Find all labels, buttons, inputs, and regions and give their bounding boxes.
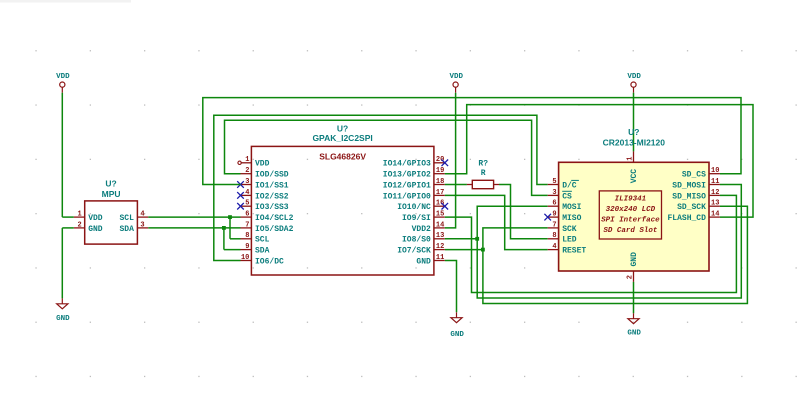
svg-text:GND: GND bbox=[416, 257, 431, 266]
U3 pin 10 SD_CS bbox=[682, 167, 720, 180]
junction MOSI net bbox=[475, 237, 479, 241]
U3 pin 14 FLASH_CD bbox=[667, 211, 719, 224]
svg-text:CR2013-MI2120: CR2013-MI2120 bbox=[603, 137, 666, 147]
svg-text:IO3/SS3: IO3/SS3 bbox=[255, 203, 289, 212]
MPU pin 3 SDA bbox=[119, 221, 148, 234]
svg-text:FLASH_CD: FLASH_CD bbox=[667, 214, 706, 223]
svg-text:4: 4 bbox=[140, 211, 144, 219]
svg-text:2: 2 bbox=[77, 221, 81, 229]
svg-text:11: 11 bbox=[436, 254, 444, 262]
U3 pin 6 MOSI bbox=[548, 200, 582, 213]
svg-text:MISO: MISO bbox=[562, 214, 581, 223]
U3 pin 1 VCC (top) bbox=[627, 151, 639, 183]
svg-text:12: 12 bbox=[436, 243, 444, 251]
U2 pin 11 GND bbox=[416, 254, 444, 267]
svg-text:13: 13 bbox=[711, 200, 719, 208]
svg-text:U?: U? bbox=[628, 127, 639, 137]
svg-text:SDA: SDA bbox=[255, 247, 270, 256]
U2 pin 17 IO11/GPIO0 bbox=[383, 189, 445, 202]
svg-text:1: 1 bbox=[77, 211, 81, 219]
svg-text:SPI Interface: SPI Interface bbox=[601, 216, 660, 224]
wire net SSD/CS: U2 pin2 over the top to U3 CS bbox=[225, 120, 548, 195]
svg-text:VCC: VCC bbox=[630, 169, 639, 184]
svg-text:VDD: VDD bbox=[56, 73, 70, 81]
svg-text:D/C: D/C bbox=[562, 181, 577, 190]
U2 pin 13 IO8/S0 bbox=[402, 232, 445, 245]
svg-text:2: 2 bbox=[627, 275, 635, 279]
svg-text:R: R bbox=[481, 169, 486, 178]
junction SCK net bbox=[481, 248, 485, 252]
svg-text:7: 7 bbox=[245, 221, 249, 229]
svg-text:MPU: MPU bbox=[102, 189, 121, 199]
wire MPU pin 2 to GND bbox=[62, 228, 74, 299]
svg-text:GPAK_I2C2SPI: GPAK_I2C2SPI bbox=[312, 133, 372, 143]
svg-text:8: 8 bbox=[552, 232, 556, 240]
svg-text:SLG46826V: SLG46826V bbox=[319, 152, 366, 162]
svg-text:MOSI: MOSI bbox=[562, 203, 581, 212]
svg-text:VDD: VDD bbox=[88, 214, 103, 223]
faint screenshot artifact top-left bbox=[0, 0, 131, 3]
U2 pin 18 IO12/GPIO1 bbox=[383, 178, 445, 191]
svg-text:6: 6 bbox=[245, 211, 249, 219]
svg-text:1: 1 bbox=[627, 156, 635, 160]
wire net SS1/SD_CS: U2 pin3 over the top to U3 SD_CS bbox=[203, 98, 741, 185]
svg-text:IO11/GPIO0: IO11/GPIO0 bbox=[383, 192, 431, 201]
svg-text:GND: GND bbox=[88, 225, 103, 234]
svg-text:9: 9 bbox=[552, 211, 556, 219]
svg-text:SD_MOSI: SD_MOSI bbox=[672, 181, 706, 190]
svg-text:RESET: RESET bbox=[562, 247, 586, 256]
svg-text:2: 2 bbox=[245, 167, 249, 175]
no-connect X on U3 MISO bbox=[544, 214, 551, 221]
svg-text:SCL: SCL bbox=[119, 214, 134, 223]
U3 pin 4 RESET bbox=[548, 243, 587, 256]
svg-text:IO4/SCL2: IO4/SCL2 bbox=[255, 214, 294, 223]
U2 pin 14 VDD2 bbox=[412, 221, 445, 234]
svg-text:LED: LED bbox=[562, 236, 577, 245]
IC U3 CR2013-MI2120 body bbox=[559, 127, 709, 271]
svg-text:SD_MISO: SD_MISO bbox=[672, 192, 706, 201]
svg-text:320x240 LCD: 320x240 LCD bbox=[606, 206, 656, 214]
svg-text:GND: GND bbox=[56, 315, 70, 323]
svg-text:SCL: SCL bbox=[255, 236, 270, 245]
wire U2 pin18 IO12/GPIO1 to R1 bbox=[445, 184, 467, 186]
wire net DC: U2 pin10 IO6/DC over the top to U3 D/C bbox=[214, 115, 548, 260]
wire net MOSI: U3 MOSI down and around to SD_MOSI bbox=[477, 185, 741, 299]
svg-text:6: 6 bbox=[552, 200, 556, 208]
wire U2 pin12 IO7/SCK into SCK net bbox=[445, 249, 483, 251]
svg-text:U?: U? bbox=[105, 178, 116, 188]
svg-text:IO1/SS1: IO1/SS1 bbox=[255, 181, 289, 190]
U2 pin 16 IO10/NC bbox=[397, 200, 445, 213]
U3 pin 5 D/C bbox=[548, 178, 577, 191]
svg-text:13: 13 bbox=[436, 232, 444, 240]
svg-text:3: 3 bbox=[552, 189, 556, 197]
wire net GPIO0/RESET: U2 pin17 to U3 RESET bbox=[445, 195, 548, 249]
MPU pin 1 VDD bbox=[74, 211, 103, 224]
wire net SI/SD_MISO: U2 pin15 IO9/SI under U3 to SD_MISO bbox=[445, 195, 737, 292]
ground symbol (below U2) bbox=[450, 312, 464, 339]
svg-text:CS: CS bbox=[562, 192, 572, 201]
MPU pin 2 GND bbox=[74, 221, 103, 234]
junction SDA net bbox=[222, 226, 226, 230]
svg-text:SD_CS: SD_CS bbox=[682, 171, 706, 180]
svg-text:GND: GND bbox=[450, 331, 464, 339]
U3 pin 13 SD_SCK bbox=[677, 200, 720, 213]
svg-text:SCK: SCK bbox=[562, 225, 577, 234]
svg-text:IO9/SI: IO9/SI bbox=[402, 214, 431, 223]
svg-text:R?: R? bbox=[478, 159, 488, 168]
svg-text:14: 14 bbox=[436, 221, 444, 229]
wire SDA branch to U2 pin 9 bbox=[224, 228, 241, 250]
grid dots (decorative) bbox=[35, 50, 796, 377]
power symbol VDD (center, feeds U2 VDD2) bbox=[449, 73, 463, 93]
U2 pin 6 IO4/SCL2 bbox=[241, 211, 294, 224]
svg-text:5: 5 bbox=[245, 200, 249, 208]
svg-text:IO2/SS2: IO2/SS2 bbox=[255, 192, 289, 201]
svg-text:5: 5 bbox=[552, 178, 556, 186]
svg-text:15: 15 bbox=[436, 211, 444, 219]
svg-text:10: 10 bbox=[711, 167, 719, 175]
svg-text:IO13/GPIO2: IO13/GPIO2 bbox=[383, 171, 431, 180]
svg-text:SD Card Slot: SD Card Slot bbox=[603, 227, 658, 235]
wire net SCK: U3 SCK down and around to SD_SCK bbox=[483, 206, 748, 303]
svg-text:1: 1 bbox=[245, 156, 249, 164]
svg-text:3: 3 bbox=[140, 221, 144, 229]
svg-text:IO7/SCK: IO7/SCK bbox=[397, 247, 431, 256]
svg-text:11: 11 bbox=[711, 178, 719, 186]
svg-text:7: 7 bbox=[552, 221, 556, 229]
U3 pin 3 CS bbox=[548, 189, 572, 202]
svg-text:IO8/S0: IO8/S0 bbox=[402, 236, 431, 245]
svg-text:10: 10 bbox=[241, 254, 249, 262]
svg-text:19: 19 bbox=[436, 167, 444, 175]
svg-text:4: 4 bbox=[552, 243, 556, 251]
ground symbol (below MPU) bbox=[56, 298, 70, 323]
svg-text:14: 14 bbox=[711, 211, 719, 219]
wire U3 GND pin down bbox=[633, 282, 635, 313]
overline marks on D/C and CS bbox=[562, 180, 579, 191]
wire VDD to U2 pin14 VDD2 bbox=[445, 93, 456, 228]
svg-text:VDD: VDD bbox=[627, 73, 641, 81]
U2 pin 15 IO9/SI bbox=[402, 211, 445, 224]
svg-text:12: 12 bbox=[711, 189, 719, 197]
no-connect X flags on U2 pins 3,4,5 bbox=[237, 181, 244, 209]
svg-text:9: 9 bbox=[245, 243, 249, 251]
svg-text:SDA: SDA bbox=[119, 225, 134, 234]
U3 inner label box: ILI9341 320x240 LCD SPI Interface SD Card Slot bbox=[599, 191, 661, 239]
U2 pin 5 IO3/SS3 bbox=[241, 200, 289, 213]
IC U2 GPAK_I2C2SPI SLG46826V body bbox=[251, 124, 434, 275]
U3 pin 2 GND (bottom) bbox=[627, 252, 639, 282]
svg-text:IO14/GPIO3: IO14/GPIO3 bbox=[383, 160, 431, 169]
wire VDD to U3 VCC pin bbox=[633, 93, 635, 152]
svg-text:VDD: VDD bbox=[255, 160, 270, 169]
U2 pin 7 IO5/SDA2 bbox=[241, 221, 294, 234]
U2 pin 4 IO2/SS2 bbox=[241, 189, 289, 202]
U2 pin 10 IO6/DC bbox=[241, 254, 285, 267]
svg-text:17: 17 bbox=[436, 189, 444, 197]
wire VDD to MPU pin 1 bbox=[62, 93, 74, 217]
svg-text:GND: GND bbox=[627, 330, 641, 338]
svg-text:ILI9341: ILI9341 bbox=[615, 195, 647, 203]
U2 pin 8 SCL bbox=[241, 232, 270, 245]
resistor R1 (R?) bbox=[467, 159, 499, 188]
svg-text:18: 18 bbox=[436, 178, 444, 186]
wire U2 pin11 GND down bbox=[445, 261, 457, 313]
U2 pin 2 IOD/SSD bbox=[241, 167, 289, 180]
svg-text:VDD2: VDD2 bbox=[412, 225, 431, 234]
wire SCL branch to U2 pin 8 bbox=[230, 217, 241, 239]
svg-text:4: 4 bbox=[245, 189, 249, 197]
U2 pin 1 open-end circle bbox=[238, 161, 241, 164]
svg-text:VDD: VDD bbox=[449, 73, 463, 81]
IC U1 MPU body bbox=[85, 178, 138, 244]
power symbol VDD (left, feeds MPU) bbox=[56, 73, 70, 93]
U3 pin 12 SD_MISO bbox=[672, 189, 720, 202]
svg-text:GND: GND bbox=[630, 252, 639, 267]
wire R1 to U3 LED bbox=[499, 185, 548, 239]
svg-text:IO10/NC: IO10/NC bbox=[397, 203, 431, 212]
wire U2 pin13 IO8/S0 into MOSI net bbox=[445, 238, 477, 240]
power symbol VDD (right, feeds U3 VCC) bbox=[627, 73, 641, 93]
U3 pin 8 LED bbox=[548, 232, 577, 245]
U2 pin 12 IO7/SCK bbox=[397, 243, 445, 256]
U2 pin 9 SDA bbox=[241, 243, 270, 256]
svg-text:3: 3 bbox=[245, 178, 249, 186]
U2 pin 20 IO14/GPIO3 bbox=[383, 156, 445, 169]
svg-text:IO6/DC: IO6/DC bbox=[255, 257, 284, 266]
U3 pin 9 MISO bbox=[548, 211, 582, 224]
wire net GPIO2/FLASH_CD: U2 pin19 to U3 FLASH_CD bbox=[445, 105, 753, 218]
U2 pin 1 VDD bbox=[241, 156, 270, 169]
svg-text:SD_SCK: SD_SCK bbox=[677, 203, 706, 212]
svg-text:IO12/GPIO1: IO12/GPIO1 bbox=[383, 181, 431, 190]
junction SCL net bbox=[228, 215, 232, 219]
svg-text:8: 8 bbox=[245, 232, 249, 240]
U2 pin 3 IO1/SS1 bbox=[241, 178, 289, 191]
svg-text:IO5/SDA2: IO5/SDA2 bbox=[255, 225, 294, 234]
wire SDA net: MPU SDA to U2 pin 7 bbox=[148, 227, 240, 229]
wire SCL net: MPU SCL to U2 pin 6 bbox=[148, 216, 240, 218]
no-connect X on U2 pin 20 bbox=[442, 160, 449, 167]
ground symbol (below U3) bbox=[627, 313, 641, 337]
U3 pin 11 SD_MOSI bbox=[672, 178, 720, 191]
U3 pin 7 SCK bbox=[548, 221, 577, 234]
MPU pin 4 SCL bbox=[119, 211, 148, 224]
U2 pin 19 IO13/GPIO2 bbox=[383, 167, 445, 180]
no-connect X on U2 pin 16 bbox=[442, 203, 449, 210]
svg-text:IOD/SSD: IOD/SSD bbox=[255, 171, 289, 180]
